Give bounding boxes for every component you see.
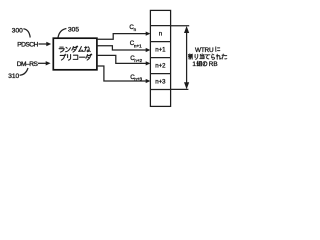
svg-text:RB: RB [209,61,218,68]
leader line from 310 to DM-RS [20,68,28,75]
annotation line2: wariaterareta [188,54,226,59]
svg-text:310: 310 [8,73,19,80]
svg-text:n: n [134,27,137,32]
svg-text:n+2: n+2 [134,58,142,63]
dimension extension line bottom [171,88,189,90]
wire PDSCH arrow into precoder [39,43,47,45]
RB cell dividers [150,25,170,27]
svg-text:300: 300 [12,28,23,35]
svg-text:WTRU: WTRU [195,47,214,54]
svg-text:n+3: n+3 [134,77,142,82]
leader tick from 305 to box [58,29,66,38]
random precoder block U305 [53,38,97,70]
svg-text:n+3: n+3 [155,79,166,85]
dimension arrow vertical [186,29,188,86]
RB stack outline [150,10,170,106]
leader line from 300 to PDSCH [23,29,30,38]
svg-text:n+1: n+1 [134,43,142,48]
wire C_n+3 from box to RB n+3 [97,66,146,81]
svg-text:PDSCH: PDSCH [17,42,38,49]
svg-text:DM–RS: DM–RS [17,61,39,68]
wire C_n from box to RB n [97,34,146,40]
wire C_n+1 from box to RB n+1 [97,46,146,50]
box text line1: randamuna [59,46,90,52]
svg-text:n: n [159,32,162,38]
wire C_n+2 from box to RB n+2 [97,55,146,63]
svg-text:305: 305 [68,27,79,34]
dimension extension line top [171,25,190,27]
box text line2: purikooda [60,54,92,60]
svg-text:n+1: n+1 [155,48,166,54]
svg-text:n+2: n+2 [155,64,166,70]
wire DM-RS arrow into precoder [38,62,46,64]
svg-text:1: 1 [192,61,196,68]
